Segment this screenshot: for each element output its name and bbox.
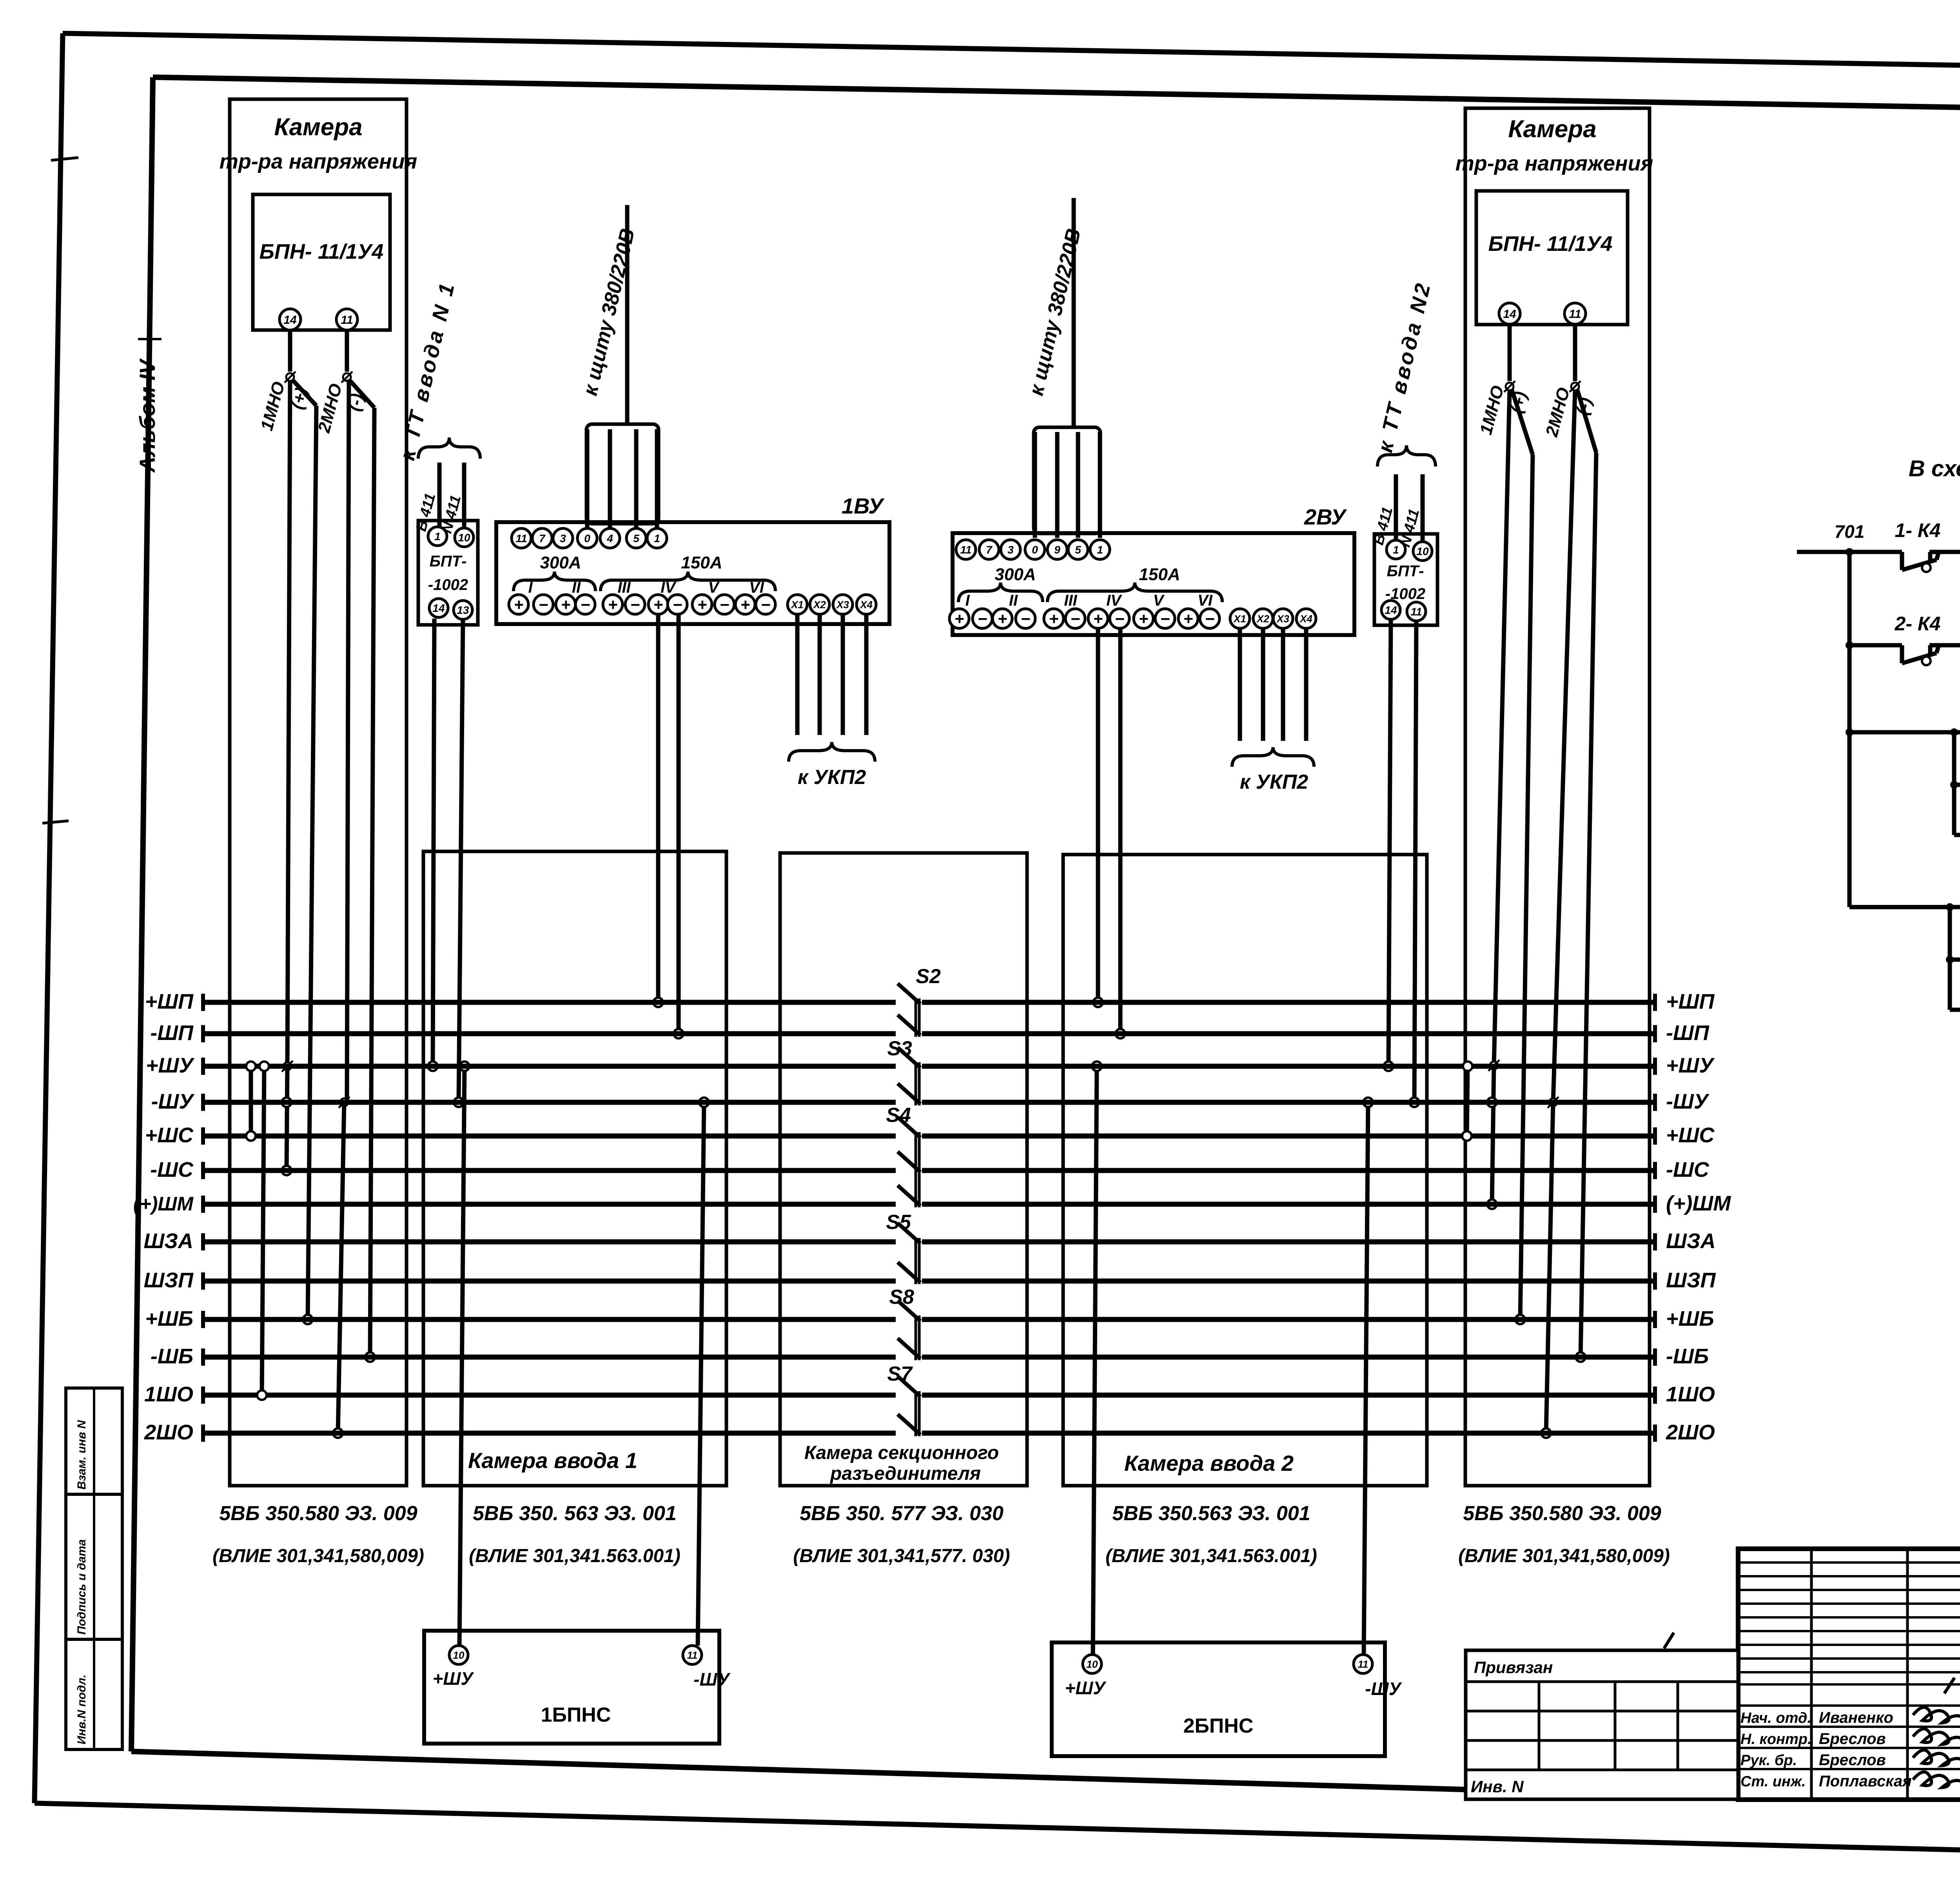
pump station panel 1БПНС (424, 1631, 719, 1744)
svg-text:5ВБ 350.563 ЭЗ. 001: 5ВБ 350.563 ЭЗ. 001 (1112, 1502, 1310, 1525)
signatures scribbles (1913, 1678, 1960, 1787)
svg-text:10: 10 (1416, 545, 1429, 557)
svg-text:Взам. инв N: Взам. инв N (75, 1420, 88, 1490)
svg-text:Инв.N подл.: Инв.N подл. (75, 1675, 88, 1744)
wire from right БПТ-11 to -ШУ bus (1414, 622, 1416, 1102)
tap mark 1МНО on +ШУ (282, 1061, 293, 1072)
tick on outer border lower (42, 821, 69, 823)
bus -ШБ (151, 1345, 1709, 1368)
svg-text:S8: S8 (889, 1286, 914, 1308)
junction 2ВУ IV− on -ШП (1116, 1029, 1125, 1038)
wire 1ВУ IV− to -ШП (677, 615, 681, 1034)
junction on ШМ right (1487, 1200, 1497, 1209)
link +ШУ to 1ШО (262, 1066, 264, 1395)
right chamber box Камера тр-ра напряжения 2 (1465, 108, 1650, 1486)
1ВУ bottom polarity terminals (509, 595, 528, 614)
svg-text:+: + (1093, 610, 1103, 628)
wire В411 up from right БПТ (1394, 474, 1398, 540)
svg-text:1: 1 (434, 530, 441, 543)
svg-text:V: V (1153, 592, 1165, 609)
wire 2ВУ IV+ to +ШП (1096, 628, 1100, 1002)
svg-text:+ШС: +ШС (1666, 1123, 1715, 1147)
branch row 1-К1 (1954, 783, 1960, 787)
svg-text:-ШУ: -ШУ (693, 1669, 731, 1689)
svg-text:2- К4: 2- К4 (1895, 613, 1941, 635)
svg-text:11: 11 (1358, 1658, 1368, 1670)
terminal 11 of left БПН (336, 309, 358, 330)
tap mark 2МНО right on -ШУ (1548, 1097, 1559, 1108)
svg-text:300А: 300А (540, 553, 581, 572)
svg-text:Нач. отд.: Нач. отд. (1740, 1710, 1811, 1726)
title block (1738, 1549, 1960, 1800)
junction +ШУ feed 2БПНС (1092, 1062, 1102, 1071)
sheet outer border bottom (34, 1803, 1960, 1864)
svg-text:+: + (955, 610, 964, 628)
crossing mark on 2МНО right (1570, 381, 1581, 392)
svg-text:−: − (630, 595, 640, 614)
svg-text:11: 11 (341, 314, 353, 327)
input panel 2ВУ (953, 533, 1354, 635)
svg-text:+: + (514, 595, 524, 614)
terminal 11 of 1БПНС (683, 1646, 702, 1664)
wire 2ВУ IV− to -ШП (1118, 628, 1123, 1034)
branch down to -ШБ right (1581, 453, 1596, 1357)
svg-text:тр-ра напряжения: тр-ра напряжения (220, 150, 417, 173)
bundle wire 4 (2ВУ) (1098, 432, 1102, 538)
input panel 1ВУ (496, 522, 889, 624)
contact 1- К4 (1895, 519, 1941, 572)
bundle wire 3 (2ВУ) (1076, 432, 1080, 538)
left margin box Инв.N подл. (66, 1639, 122, 1749)
svg-text:Камера: Камера (274, 114, 362, 141)
svg-text:13: 13 (457, 604, 469, 616)
branch down to +ШБ right (1520, 455, 1533, 1319)
svg-text:ШЗП: ШЗП (144, 1268, 194, 1292)
junction on 2ШО right (1541, 1428, 1551, 1438)
branch row 2-К2 (1950, 1008, 1960, 1012)
wire to УКП2 (2ВУ) (1261, 628, 1265, 741)
svg-text:к УКП2: к УКП2 (1240, 771, 1308, 793)
brace over В411 N411 right (1377, 445, 1436, 466)
svg-text:-ШС: -ШС (1666, 1158, 1710, 1181)
junction on +ШБ (303, 1315, 312, 1324)
svg-text:X4: X4 (1299, 613, 1312, 624)
svg-text:(ВЛИЕ 301,341.563.001): (ВЛИЕ 301,341.563.001) (1105, 1546, 1317, 1566)
svg-text:10: 10 (458, 532, 470, 544)
svg-text:X1: X1 (1233, 613, 1246, 624)
svg-text:БПТ-: БПТ- (430, 553, 467, 570)
svg-text:+: + (1139, 610, 1149, 628)
bundle wire 4 (655, 429, 659, 528)
svg-text:300А: 300А (995, 565, 1036, 584)
bus -ШУ (151, 1090, 1710, 1113)
svg-text:−: − (1160, 610, 1170, 628)
svg-text:4: 4 (606, 532, 613, 544)
relay row 1БПНС rail (1849, 730, 1960, 735)
svg-text:150А: 150А (1139, 565, 1180, 584)
crossing mark on 2МНО wire (341, 372, 352, 383)
svg-text:тр-ра напряжения: тр-ра напряжения (1455, 152, 1653, 175)
bus ШЗП (144, 1268, 1716, 1292)
svg-text:ШЗА: ШЗА (143, 1229, 193, 1253)
svg-text:X2: X2 (813, 599, 826, 610)
terminal 1 of right БПТ (1387, 540, 1405, 559)
svg-text:В схему сигнализации АЭМ. л: В схему сигнализации АЭМ. л. 43 (1909, 456, 1960, 481)
svg-text:Альбом IV: Альбом IV (135, 358, 160, 473)
svg-text:+ШП: +ШП (1666, 990, 1715, 1013)
wire from right БПТ-14 to +ШУ bus (1388, 620, 1391, 1066)
svg-text:11: 11 (1410, 606, 1422, 618)
wire 1МНО down to +ШУ bus (287, 381, 290, 1066)
svg-text:+ШУ: +ШУ (432, 1668, 474, 1689)
relay row 2ВУ rail (1849, 643, 1960, 648)
svg-text:Подпись и дата: Подпись и дата (75, 1539, 88, 1635)
left margin box Подпись и дата (66, 1494, 122, 1639)
svg-text:−: − (1205, 610, 1215, 628)
sheet outer border left (34, 33, 63, 1803)
svg-text:11: 11 (960, 544, 971, 556)
svg-text:ШЗП: ШЗП (1666, 1268, 1716, 1292)
terminal 13 of left БПТ (454, 601, 472, 619)
terminal 11 of right БПН (1564, 303, 1586, 324)
svg-text:−: − (673, 595, 682, 614)
svg-text:S5: S5 (886, 1211, 911, 1234)
terminal 11 of right БПТ (1407, 602, 1426, 621)
riser to 380/220V panel right (1072, 198, 1076, 427)
wire to УКП2 (1ВУ) (818, 615, 822, 735)
svg-text:I: I (965, 592, 970, 609)
svg-text:1- К4: 1- К4 (1895, 519, 1941, 541)
svg-text:+: + (608, 595, 618, 614)
crossing mark on 1МНО wire (285, 372, 296, 383)
wire link -ШУ to -ШС (287, 1066, 287, 1170)
svg-text:2ВУ: 2ВУ (1304, 504, 1347, 529)
bus +ШБ (145, 1307, 1714, 1330)
left supply unit БПТ-1002 (418, 521, 478, 625)
2ВУ terminals X1-X4 (1230, 609, 1250, 628)
svg-text:X4: X4 (859, 599, 873, 610)
junction on -ШБ (365, 1352, 375, 1362)
section box Камера ввода 1 (423, 851, 726, 1486)
svg-text:S7: S7 (887, 1363, 913, 1385)
svg-text:1: 1 (1393, 544, 1399, 556)
terminal 10 of 2БПНС (1083, 1655, 1102, 1673)
wire В411 up from terminal 1 (437, 463, 442, 527)
link +ШУ to +ШС (249, 1066, 253, 1136)
drawing frame left (131, 77, 153, 1751)
svg-text:VI: VI (1198, 592, 1213, 609)
terminal 14 of left БПН (279, 309, 301, 330)
pump station panel 2БПНС (1052, 1642, 1385, 1756)
svg-text:S3: S3 (887, 1037, 912, 1060)
cable bundle to 380/220V panel (2ВУ) (1034, 427, 1100, 534)
svg-text:9: 9 (1054, 544, 1060, 556)
cable bundle to 380/220V panel (1ВУ) (586, 424, 659, 524)
svg-text:Камера секционного: Камера секционного (804, 1443, 999, 1463)
wire -ШУ to 2БПНС (1364, 1102, 1368, 1655)
svg-text:−: − (1021, 610, 1031, 628)
power unit БПН-11/1У4 left (253, 194, 390, 330)
svg-text:(ВЛИЕ 301,341,580,009): (ВЛИЕ 301,341,580,009) (212, 1546, 424, 1566)
bus 2ШО (144, 1421, 1715, 1444)
section switch S4 (886, 1104, 920, 1207)
bus (+)ШМ (133, 1192, 1731, 1215)
svg-text:−: − (720, 595, 730, 614)
terminal 10 of right БПТ (1413, 542, 1432, 561)
svg-text:3: 3 (560, 532, 566, 544)
svg-text:IV: IV (661, 579, 677, 596)
wire from БПТ-13 to -ШУ bus (459, 620, 463, 1102)
svg-text:III: III (1064, 592, 1077, 609)
junction -ШУ feed 1БПНС (699, 1098, 709, 1107)
svg-text:-ШБ: -ШБ (151, 1345, 193, 1368)
wire 2МНО from terminal 11 (345, 330, 349, 372)
svg-text:+: + (1049, 610, 1059, 628)
branch vertical left 2БПНС (1948, 907, 1952, 1010)
junction 1ВУ IV− on -ШП (674, 1029, 683, 1038)
svg-text:III: III (617, 579, 631, 596)
svg-text:+: + (697, 595, 707, 614)
drawing frame top (153, 77, 1960, 117)
svg-text:БПН- 11/1У4: БПН- 11/1У4 (260, 240, 384, 263)
svg-text:(+)ШМ: (+)ШМ (133, 1193, 194, 1215)
svg-text:-ШУ: -ШУ (1365, 1679, 1402, 1699)
terminal 11 of 2БПНС (1354, 1655, 1372, 1673)
svg-text:II: II (572, 579, 581, 596)
relay row 2БПНС rail (1849, 905, 1960, 909)
svg-text:−: − (1115, 610, 1125, 628)
svg-text:VI: VI (749, 579, 764, 596)
svg-text:-1002: -1002 (428, 576, 468, 593)
svg-text:1БПНС: 1БПНС (541, 1704, 611, 1726)
wire 2МНО down through buses (347, 379, 349, 1102)
svg-text:+ШУ: +ШУ (1065, 1678, 1107, 1698)
svg-text:(+)ШМ: (+)ШМ (1666, 1192, 1731, 1215)
svg-text:(ВЛИЕ 301,341.563.001): (ВЛИЕ 301,341.563.001) (469, 1546, 681, 1566)
left rail vertical (1847, 552, 1852, 907)
svg-text:ШЗА: ШЗА (1666, 1229, 1716, 1253)
junction on rail at 1БПНС row (1846, 728, 1853, 736)
svg-text:701: 701 (1835, 521, 1865, 542)
wire 2МНО down to 2ШО bus (338, 1102, 344, 1433)
svg-text:II: II (1009, 592, 1018, 609)
junction on -ШУ right (1487, 1098, 1497, 1107)
sheet outer border top (63, 33, 1960, 75)
section switch S3 (887, 1037, 920, 1105)
terminal 1 of left БПТ (428, 527, 447, 546)
junction on -ШС (282, 1166, 291, 1175)
wire 2МНО right to 2ШО (1546, 1102, 1553, 1433)
branch row 1-К2 (1954, 833, 1960, 837)
svg-text:14: 14 (432, 602, 445, 614)
relay row 1ВУ rail (1797, 550, 1960, 554)
terminal 14 of right БПТ (1381, 601, 1400, 619)
branch row 2-К1 (1950, 958, 1960, 962)
junction right БПТ-11 on -ШУ (1410, 1098, 1419, 1107)
tick on outer border (51, 158, 78, 160)
section switch S7 (887, 1363, 920, 1436)
svg-text:Камера ввода 2: Камера ввода 2 (1124, 1451, 1294, 1475)
bundle wire 2 (608, 429, 612, 528)
svg-text:+: + (998, 610, 1007, 628)
wire to УКП2 (1ВУ) (795, 615, 800, 735)
wire 1ВУ IV+ to +ШП (656, 615, 661, 1002)
svg-text:S4: S4 (886, 1104, 911, 1127)
bus -ШП (150, 1021, 1710, 1045)
svg-text:IV: IV (1106, 592, 1122, 609)
svg-text:150А: 150А (681, 553, 722, 572)
wire 1МНО from terminal 14 (288, 330, 292, 372)
svg-text:5ВБ 350. 563 ЭЗ. 001: 5ВБ 350. 563 ЭЗ. 001 (473, 1502, 677, 1525)
wire to УКП2 (2ВУ) (1304, 628, 1308, 741)
svg-text:Камера: Камера (1508, 116, 1596, 143)
svg-text:−: − (581, 595, 590, 614)
branch wire from 1МНО (292, 379, 316, 406)
svg-text:БПН- 11/1У4: БПН- 11/1У4 (1488, 232, 1613, 256)
junction on +ШБ right (1515, 1315, 1525, 1324)
wire to УКП2 (2ВУ) (1281, 628, 1285, 741)
wire +ШУ to 1БПНС (459, 1066, 465, 1646)
svg-text:2БПНС: 2БПНС (1183, 1715, 1254, 1737)
bus 1ШО (144, 1383, 1715, 1406)
bundle wire 1 (2ВУ) (1033, 432, 1037, 538)
svg-text:+ШБ: +ШБ (1666, 1307, 1714, 1330)
svg-text:к УКП2: к УКП2 (798, 766, 866, 789)
section switch S5 (886, 1211, 920, 1284)
wire to УКП2 (1ВУ) (841, 615, 845, 735)
bundle wire 1 (585, 429, 590, 528)
terminal 10 of left БПТ (455, 528, 474, 547)
section box Камера секционного разъединителя (780, 853, 1027, 1486)
wire +ШУ to 2БПНС (1093, 1066, 1097, 1655)
link -ШУ to ШМ right (1492, 1065, 1494, 1204)
branch vertical left 1БПНС (1952, 732, 1956, 835)
wire to УКП2 (1ВУ) (864, 615, 869, 735)
tap mark 2МНО on -ШУ (339, 1097, 350, 1108)
svg-text:Инв. N: Инв. N (1471, 1777, 1524, 1796)
junction on rail at 2ВУ row (1846, 641, 1853, 649)
svg-text:-ШП: -ШП (150, 1021, 194, 1045)
svg-text:1: 1 (1097, 544, 1103, 556)
wire N411 up from terminal 10 (462, 463, 466, 528)
svg-text:−: − (539, 595, 548, 614)
junction +ШУ feed 1БПНС (460, 1062, 469, 1071)
power unit БПН-11/1У4 right (1476, 191, 1628, 325)
wire to УКП2 (2ВУ) (1238, 628, 1242, 741)
svg-text:-ШУ: -ШУ (151, 1090, 195, 1113)
svg-text:Бреслов: Бреслов (1819, 1730, 1886, 1748)
svg-text:Ст. инж.: Ст. инж. (1740, 1773, 1806, 1790)
junction on 2ШО (333, 1428, 343, 1438)
svg-text:X3: X3 (836, 599, 849, 610)
junction БПТ-13 on -ШУ (454, 1098, 463, 1107)
svg-text:X2: X2 (1256, 613, 1269, 624)
svg-text:БПТ-: БПТ- (1387, 563, 1424, 580)
branch wire from 2МНО (349, 379, 374, 408)
bus +ШП (145, 990, 1715, 1013)
svg-text:7: 7 (986, 544, 993, 556)
svg-text:5ВБ 350. 577 ЭЗ. 030: 5ВБ 350. 577 ЭЗ. 030 (800, 1502, 1004, 1525)
svg-text:10: 10 (1087, 1658, 1098, 1670)
svg-text:Н. контр.: Н. контр. (1740, 1731, 1812, 1748)
terminal 10 of 1БПНС (449, 1646, 468, 1664)
riser to 380/220V panel left (625, 205, 630, 424)
wire 1МНО right from terminal 14 (1508, 325, 1512, 381)
svg-text:S2: S2 (916, 965, 941, 988)
svg-text:1: 1 (654, 532, 660, 544)
svg-text:-ШС: -ШС (150, 1158, 194, 1181)
brace к УКП2 right (1232, 747, 1314, 767)
brace к УКП2 left (789, 742, 875, 762)
branch wire down to +ШБ bus (308, 406, 316, 1319)
svg-text:+ШУ: +ШУ (1666, 1054, 1715, 1077)
bus ШЗА (143, 1229, 1715, 1253)
svg-text:(ВЛИЕ 301,341,580,009): (ВЛИЕ 301,341,580,009) (1458, 1546, 1670, 1566)
brace 300А group 2ВУ (958, 583, 1043, 602)
wire 2МНО right from terminal 11 (1573, 325, 1577, 381)
svg-text:14: 14 (283, 314, 297, 327)
right supply unit БПТ-1002 (1374, 534, 1437, 625)
branch junction left 1БПНС (1950, 728, 1958, 736)
svg-text:5ВБ 350.580 ЭЗ. 009: 5ВБ 350.580 ЭЗ. 009 (219, 1502, 417, 1525)
svg-text:−: − (978, 610, 987, 628)
svg-text:I: I (528, 579, 533, 596)
brace over В411 N411 left (418, 437, 480, 459)
svg-text:−: − (1071, 610, 1080, 628)
attachment box Привязан (1466, 1650, 1738, 1799)
bundle wire 3 (634, 429, 639, 528)
contact 2- К4 (1895, 613, 1941, 665)
svg-text:3: 3 (1007, 544, 1014, 556)
junction БПТ-14 on +ШУ (428, 1062, 437, 1071)
svg-text:Камера ввода 1: Камера ввода 1 (468, 1448, 637, 1473)
svg-text:+: + (1183, 610, 1193, 628)
branch from 1МНО right (1512, 389, 1533, 455)
bus +ШС (145, 1123, 1715, 1147)
svg-text:-ШП: -ШП (1666, 1021, 1710, 1045)
svg-text:+ШБ: +ШБ (145, 1307, 193, 1330)
left margin box Взам. инв N (66, 1388, 122, 1494)
2ВУ top terminals 11 7 3 0 9 5 1 (956, 540, 976, 559)
svg-text:X1: X1 (790, 599, 804, 610)
svg-text:1ВУ: 1ВУ (842, 494, 885, 518)
svg-text:V: V (708, 579, 720, 596)
bundle wire 2 (2ВУ) (1055, 432, 1060, 538)
wire 2МНО right down (1553, 390, 1575, 1102)
svg-text:+: + (740, 595, 750, 614)
2ВУ bottom polarity terminals (949, 609, 969, 628)
svg-text:11: 11 (687, 1649, 698, 1661)
terminal 14 of right БПН (1499, 303, 1520, 324)
brace 150А group 2ВУ (1047, 583, 1222, 602)
svg-text:(ВЛИЕ 301,341,577. 030): (ВЛИЕ 301,341,577. 030) (793, 1546, 1010, 1566)
left chamber box Камера тр-ра напряжения 1 (230, 99, 407, 1486)
crossing mark on 1МНО right (1504, 381, 1515, 392)
svg-text:разъединителя: разъединителя (829, 1463, 981, 1484)
svg-text:0: 0 (584, 532, 590, 544)
svg-text:11: 11 (1569, 308, 1581, 321)
svg-text:-ШУ: -ШУ (1666, 1090, 1710, 1113)
svg-text:+ШП: +ШП (145, 990, 194, 1013)
svg-text:Привязан: Привязан (1474, 1658, 1553, 1677)
branch from 2МНО right (1577, 389, 1596, 453)
svg-text:+ШУ: +ШУ (146, 1054, 194, 1077)
drawing frame bottom (131, 1751, 1738, 1797)
svg-text:+: + (561, 595, 571, 614)
junction on -ШУ (282, 1098, 291, 1107)
svg-text:Иваненко: Иваненко (1819, 1709, 1893, 1726)
1ВУ top terminals 11 7 3 0 4 5 1 (512, 528, 531, 548)
